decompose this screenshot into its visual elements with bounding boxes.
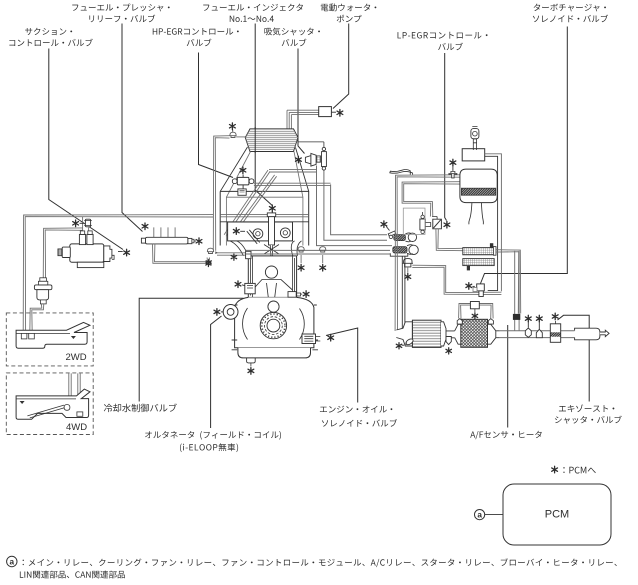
fuel rail xyxy=(146,237,188,244)
pipe end arrow xyxy=(215,251,218,254)
svg-text:a: a xyxy=(477,511,482,520)
valve crossover xyxy=(264,245,279,255)
star marker: shutter valve xyxy=(296,156,302,163)
turbine wheel xyxy=(393,247,407,253)
fitting above pump xyxy=(85,219,90,227)
injection pump Q1 xyxy=(70,244,104,262)
wire: intake downpipe mid xyxy=(324,172,387,240)
wire: LP-EGR valve to cooler xyxy=(436,229,463,251)
DPF port flanges xyxy=(457,319,493,324)
wire: HP-EGR to downpipe xyxy=(254,183,331,185)
wire: leader alternator xyxy=(211,316,222,428)
wire: leader fuel injector xyxy=(255,24,272,219)
fuel filter xyxy=(34,285,52,290)
star marker: port 1 xyxy=(298,264,304,271)
LP-EGR cooler pass 2 xyxy=(463,259,494,266)
wire: inlet to intercooler xyxy=(236,136,245,138)
exhaust sensor 1 xyxy=(525,328,531,337)
wire: leader coolant control valve xyxy=(139,298,243,401)
coolant control valve V1 xyxy=(245,283,255,293)
2WD dashed box xyxy=(6,313,93,366)
intake shutter valve xyxy=(305,156,311,164)
LP-EGR control valve V3 xyxy=(433,219,442,229)
wire: leader A/F sensor heater xyxy=(507,325,509,428)
exhaust shutter valve V5 xyxy=(550,324,560,343)
crankcase / transmission xyxy=(235,297,314,347)
star marker: injector xyxy=(269,205,275,212)
wire: turbo downpipe xyxy=(402,256,405,331)
tee fitting xyxy=(449,172,457,178)
wire: pump stub lines xyxy=(83,217,89,232)
mid pipe sensor boss xyxy=(446,337,451,345)
star marker: pump fitting xyxy=(73,220,79,227)
fuel rail injector stubs xyxy=(154,227,175,237)
star marker: oil solenoid xyxy=(328,334,334,341)
wire: exhaust manifold pipe xyxy=(246,250,390,254)
DOC catalyst xyxy=(396,322,412,346)
cylinder head xyxy=(228,222,293,241)
star marker: sensor 1 xyxy=(525,315,531,322)
fuel injector body xyxy=(269,217,275,245)
wire: leader intake shutter valve xyxy=(298,49,305,154)
fitting: exhaust port 2 xyxy=(320,247,326,252)
compressor bypass valve xyxy=(388,231,396,237)
wire: pump-filter line xyxy=(43,228,82,284)
wire: rail feed line xyxy=(153,244,210,263)
PCM box xyxy=(503,484,611,545)
exhaust temp sensor xyxy=(405,338,414,346)
star marker: alternator xyxy=(214,309,220,316)
wire: inner funnel duct xyxy=(226,152,303,246)
wire: port stems xyxy=(301,255,323,263)
star marker: sensor 2 xyxy=(536,315,542,322)
wire: EGR upper line xyxy=(269,170,317,172)
turbine outlet bracket xyxy=(390,253,408,256)
intake plenum box xyxy=(220,191,309,245)
star marker: HP-EGR xyxy=(240,167,246,174)
connector a circle xyxy=(475,509,485,519)
wire: leader turbocharger solenoid valve xyxy=(481,27,568,284)
wire: tank legs xyxy=(469,203,484,225)
star marker: intercooler inlet xyxy=(230,123,236,130)
star marker: turbo solenoid xyxy=(466,283,472,290)
wire: tank line + air horn xyxy=(395,175,460,331)
wire: DPF bypass loop xyxy=(459,304,494,319)
turbine housing xyxy=(409,245,418,254)
fitting: exhaust port 1 xyxy=(298,247,304,252)
turbo compressor wheel xyxy=(394,235,406,241)
flywheel sector xyxy=(243,308,305,340)
star marker: suction valve xyxy=(124,249,130,256)
differential pressure sensor xyxy=(470,302,479,309)
exhaust sensor 2 xyxy=(536,329,542,337)
wire: intake downpipe outer xyxy=(317,166,393,246)
star marker: port 2 xyxy=(320,264,326,271)
main silencer xyxy=(575,328,600,340)
wire: actuator to solenoid black xyxy=(485,156,498,290)
wire: main vacuum line xyxy=(23,215,213,334)
intake runner left xyxy=(230,241,248,256)
fitting: left mushroom xyxy=(207,248,213,253)
wastegate actuator xyxy=(403,259,413,267)
intake runner right xyxy=(291,241,301,256)
wire: tailpipe xyxy=(500,331,575,338)
HP-EGR control valve xyxy=(237,177,249,185)
wire: intercooler inlet pipe xyxy=(213,136,229,251)
wire: lines into 4WD pan xyxy=(69,373,71,405)
svg-text:PCM: PCM xyxy=(545,509,569,521)
boost pressure sensor xyxy=(471,129,479,139)
star marker: water pump xyxy=(337,110,343,117)
turbocharger solenoid valve V4 xyxy=(477,284,485,291)
4WD oil pan xyxy=(16,389,90,419)
engine drain fitting xyxy=(247,358,256,363)
compressor housing xyxy=(408,233,416,241)
wire: funnel to plenum xyxy=(220,147,308,191)
svg-text:2WD: 2WD xyxy=(65,352,86,363)
cylinder block xyxy=(248,256,296,298)
wire: leader LP-EGR control valve xyxy=(445,53,447,221)
star marker: wastegate xyxy=(405,273,411,280)
star marker: DOC inlet xyxy=(396,343,402,349)
star marker: left mushroom xyxy=(206,259,211,265)
wire: electric water pump lines xyxy=(287,110,319,129)
fitting: intercooler inlet xyxy=(230,132,236,137)
star marker: exhaust shutter xyxy=(552,313,558,320)
star marker: rail feed xyxy=(206,261,211,267)
wire: cooler outlet right xyxy=(496,250,521,314)
star marker: tee xyxy=(450,159,456,166)
star marker: coolant valve xyxy=(235,281,241,288)
star marker: bypass xyxy=(381,221,387,228)
wire: filter to 2WD pan xyxy=(30,304,44,334)
wire: leader engine oil solenoid valve xyxy=(326,328,358,403)
engine right fitting xyxy=(288,292,296,298)
wire: leader exhaust shutter valve xyxy=(558,315,590,401)
turbo actuator box xyxy=(462,149,485,161)
wire: injector leader over intercooler xyxy=(254,127,256,153)
star marker: glow plug xyxy=(233,228,239,235)
note: star = to PCM xyxy=(552,466,558,473)
wire: leader fuel pressure relief valve xyxy=(122,24,143,232)
2WD oil pan xyxy=(16,322,90,348)
star marker: engine bottom xyxy=(248,368,254,375)
HP-EGR outlet flange xyxy=(238,189,246,195)
star marker: mid pipe xyxy=(446,348,452,354)
footnote a circle xyxy=(7,556,17,566)
wire: actuator to solenoid gray xyxy=(485,154,502,291)
wire: wastegate line xyxy=(412,265,501,294)
LP-EGR pressure solenoid xyxy=(420,219,425,230)
wire: intake downpipe inner xyxy=(331,184,387,234)
star marker: left pipe xyxy=(231,254,237,260)
star marker: dp sensor xyxy=(472,313,478,319)
shutter position sensor R1 xyxy=(322,152,327,167)
wire: leader suction control valve xyxy=(49,49,123,250)
electric water pump M1 xyxy=(319,107,332,117)
star marker: rail right xyxy=(196,238,202,245)
svg-text:4WD: 4WD xyxy=(66,422,87,433)
wire: mid U pipe xyxy=(446,331,455,338)
tail pipe tip xyxy=(600,330,609,336)
svg-text:a: a xyxy=(10,558,15,567)
cylinder left flange xyxy=(246,251,251,258)
flywheel / ring gear xyxy=(260,312,286,338)
camshaft circle xyxy=(268,301,279,312)
wire: leader electric water pump xyxy=(333,24,349,109)
wire: flex pipe vertical xyxy=(515,251,519,331)
star marker: LP-EGR valve xyxy=(444,221,450,228)
4WD dashed box xyxy=(6,373,93,435)
LP-EGR cooler pass 1 xyxy=(463,248,495,255)
star marker: engine right xyxy=(303,291,309,298)
wire: mid C pipe xyxy=(402,182,460,217)
engine oil solenoid valve V2 xyxy=(302,334,316,344)
glow plug xyxy=(247,230,260,244)
vacuum tank xyxy=(460,169,497,203)
star marker: rail left xyxy=(142,223,148,230)
wire: leader HP-EGR control valve xyxy=(199,53,234,178)
wire: wastegate stem xyxy=(407,267,409,273)
wire: engine left pipe xyxy=(217,253,246,255)
wire: EGR diagonal pipes xyxy=(224,170,270,236)
alternator pulley xyxy=(223,305,238,320)
DPF filter xyxy=(455,324,461,344)
